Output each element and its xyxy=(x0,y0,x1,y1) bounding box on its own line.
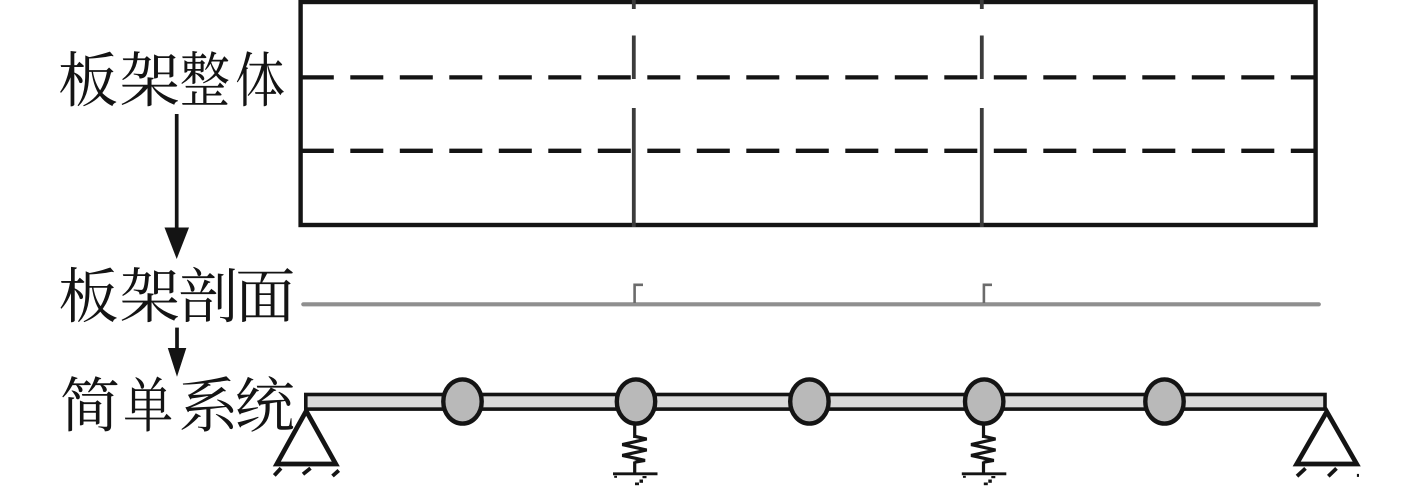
spring 2 ground hatch block 3 xyxy=(984,483,988,486)
hinge circle 2 xyxy=(617,379,655,423)
dashed girder line 1 xyxy=(301,75,1316,79)
beam (simple system) xyxy=(306,395,1325,410)
spring 1 ground line xyxy=(613,472,658,475)
support triangle right xyxy=(1297,412,1357,464)
label 板架剖面 xyxy=(61,267,293,322)
spring 1 stem bottom xyxy=(633,462,636,475)
plate frame outline rectangle xyxy=(301,2,1316,225)
spring 1 ground hatch block 1 xyxy=(643,476,647,478)
dashed girder line 2 xyxy=(301,149,1316,153)
hinge circle 5 xyxy=(1145,379,1183,423)
ground hatch left support xyxy=(274,468,339,476)
hinge circle 1 xyxy=(443,379,481,423)
spring 1 ground hatch dash xyxy=(614,476,617,478)
spring 2 ground line xyxy=(962,472,1007,475)
spring 2 stem top xyxy=(982,424,985,438)
hinge circle 3 xyxy=(790,379,828,423)
arrow 1 (板架整体 -> 板架剖面) xyxy=(165,114,190,259)
transverse web line 2 (x=982) xyxy=(980,0,984,227)
label 简单系统 xyxy=(62,376,293,432)
ground hatch right support xyxy=(1297,468,1337,476)
transverse web line 1 (x=634) xyxy=(632,0,636,227)
label 板架整体 xyxy=(60,51,284,106)
spring 1 zigzag xyxy=(622,436,646,462)
support triangle left xyxy=(277,411,336,464)
spring 1 ground hatch block 3 xyxy=(635,483,639,486)
hinge circle 4 xyxy=(965,379,1003,423)
section gray line (板架剖面) xyxy=(303,302,1319,306)
spring 1 ground hatch block 2 xyxy=(640,480,644,483)
spring 2 ground hatch block 2 xyxy=(988,480,992,483)
spring 2 ground hatch dash xyxy=(963,476,966,478)
section step mark 1 xyxy=(635,285,643,303)
ground hatch dot right xyxy=(1357,474,1359,477)
spring 2 zigzag xyxy=(971,436,995,462)
spring 1 stem top xyxy=(633,424,636,438)
spring 2 stem bottom xyxy=(982,462,985,475)
spring 2 ground hatch block 1 xyxy=(991,476,995,478)
section step mark 2 xyxy=(984,285,992,303)
arrow 2 (板架剖面 -> 简单系统) xyxy=(168,328,187,377)
